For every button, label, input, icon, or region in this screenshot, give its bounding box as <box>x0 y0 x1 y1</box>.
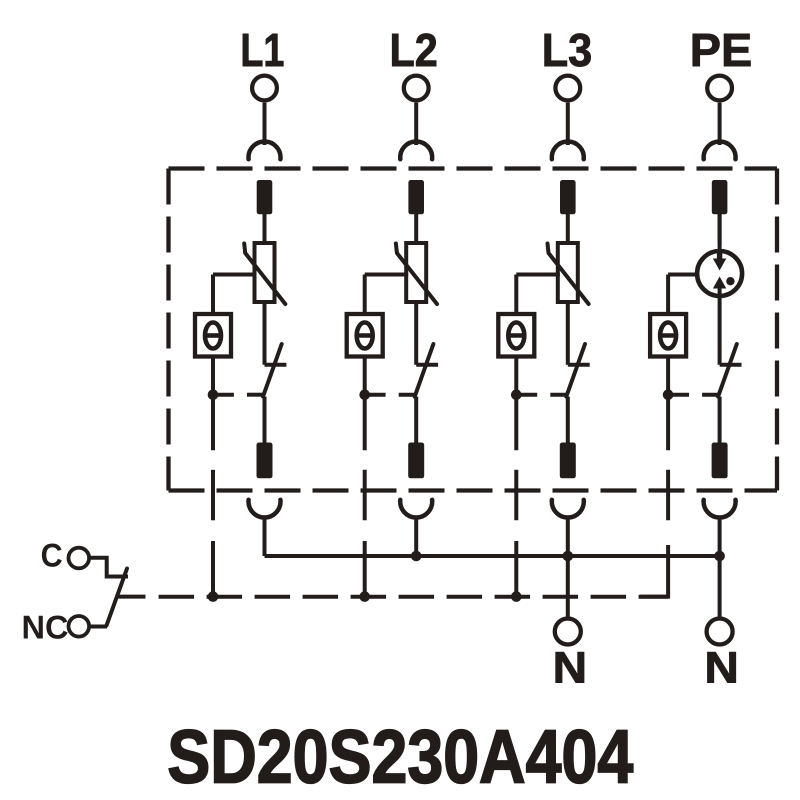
svg-text:NC: NC <box>22 608 69 645</box>
svg-text:L3: L3 <box>542 24 593 76</box>
svg-text:N: N <box>704 644 739 693</box>
svg-text:L1: L1 <box>240 24 284 76</box>
svg-text:L2: L2 <box>389 24 437 76</box>
svg-text:SD20S230A404: SD20S230A404 <box>167 715 633 799</box>
svg-text:PE: PE <box>690 24 753 76</box>
svg-text:N: N <box>553 644 588 693</box>
svg-text:C: C <box>41 537 63 574</box>
